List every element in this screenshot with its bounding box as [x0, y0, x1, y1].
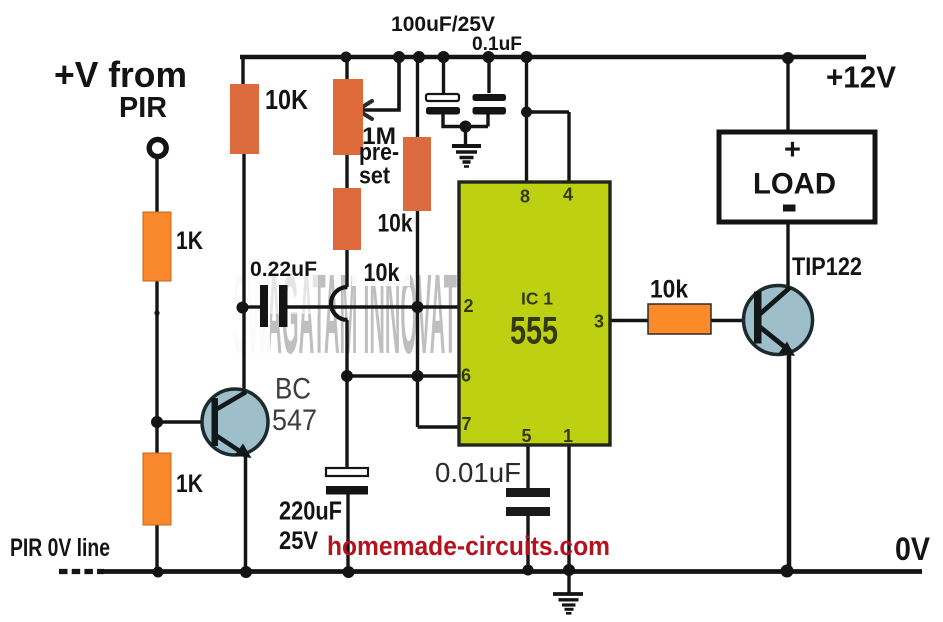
wire BC547 base — [157, 420, 214, 424]
wire 0V rail — [104, 569, 922, 574]
wire LOAD to TIP122 collector — [786, 223, 789, 288]
svg-text:10k: 10k — [378, 210, 413, 238]
wire 100uF bottom lead — [443, 114, 488, 127]
watermark SWAGATAM INNOVATIONS — [226, 252, 509, 378]
svg-text:set: set — [359, 163, 390, 190]
wire 220uF to 0V rail — [346, 494, 349, 572]
resistor 10k (pin2 pullup) — [403, 137, 431, 211]
junction rail / LOAD — [782, 52, 794, 64]
svg-text:0.01uF: 0.01uF — [435, 457, 521, 488]
wire hop over pin2 line — [331, 287, 348, 320]
svg-text:PIR 0V line: PIR 0V line — [10, 534, 110, 562]
wire 1K to lower 1K — [155, 281, 158, 453]
wire 10k to pin7 — [416, 211, 419, 427]
svg-text:5: 5 — [521, 426, 531, 446]
wire rail to 10k (pin2 pullup) — [416, 57, 419, 137]
wire pin2 line left — [244, 305, 260, 308]
ground symbol top (decoupling caps) — [452, 146, 481, 167]
terminal +V from PIR — [149, 140, 166, 157]
junction rail / pin8 — [521, 51, 533, 63]
label 1M pre-set — [359, 123, 399, 190]
junction 0V / BC547 emitter — [240, 566, 252, 578]
svg-text:0.22uF: 0.22uF — [250, 257, 317, 281]
svg-text:3: 3 — [594, 312, 604, 332]
capacitor 0.1uF plates — [473, 94, 507, 115]
svg-text:0.1uF: 0.1uF — [472, 34, 522, 55]
wire top +12V rail — [240, 55, 866, 60]
junction rail / 100uF — [438, 51, 450, 63]
resistor 1K upper — [143, 212, 171, 281]
svg-text:25V: 25V — [279, 527, 318, 555]
wire pin6 junction to 220uF — [345, 376, 348, 468]
wire 0.1uF top lead — [487, 57, 490, 93]
junction collector / 0.22uF — [237, 302, 249, 314]
wire 10K top lead — [241, 55, 244, 84]
svg-text:BC: BC — [275, 373, 311, 406]
svg-text:547: 547 — [272, 404, 317, 437]
svg-text:10K: 10K — [265, 84, 308, 115]
wire PIR 0V dashed lead — [59, 569, 104, 574]
transistor Q2 TIP122 — [744, 286, 813, 357]
wire rail to pin8 — [525, 57, 528, 182]
capacitor 100uF/25V plates — [426, 94, 460, 115]
svg-text:PIR: PIR — [119, 92, 167, 124]
capacitor 0.01uF plates — [506, 488, 550, 516]
svg-text:0V: 0V — [895, 531, 931, 567]
label LOAD minus — [783, 205, 796, 212]
junction rail / 1M preset — [341, 52, 352, 63]
resistor 1K lower — [143, 453, 171, 525]
junction caps to ground — [460, 121, 472, 133]
svg-text:+V from: +V from — [54, 54, 187, 95]
resistor 10k (base, horizontal) — [648, 304, 711, 334]
wire hop to pin6 junction — [345, 320, 348, 376]
wire pin1 ground stub — [567, 572, 570, 594]
junction pin6 line / pin7 branch — [412, 370, 424, 382]
svg-text:555: 555 — [510, 310, 558, 353]
wire pin1 to 0V rail — [567, 445, 570, 572]
wire pin2 line — [287, 305, 459, 308]
svg-text:1K: 1K — [176, 227, 203, 255]
wire rail to 1M preset — [345, 57, 348, 79]
wire tee to pin4 — [527, 112, 570, 182]
wire preset wiper to rail — [360, 58, 399, 110]
LOAD box — [719, 132, 875, 222]
svg-text:TIP122: TIP122 — [792, 253, 862, 281]
wire +12V rail to LOAD — [786, 57, 789, 133]
wire 1M preset to 10k resistor — [345, 155, 348, 188]
svg-text:8: 8 — [520, 187, 530, 207]
svg-text:homemade-circuits.com: homemade-circuits.com — [327, 531, 610, 561]
potentiometer 1M preset body — [333, 79, 363, 155]
junction pin2 line / pullup — [412, 301, 424, 313]
wire TIP122 emitter to 0V rail — [787, 354, 792, 572]
wire 10k down to hop — [345, 250, 348, 287]
wire lower 1K to 0V rail — [155, 525, 158, 572]
svg-text:+: + — [784, 134, 801, 166]
IC U1 555 body — [459, 182, 610, 445]
junction rail / 0.1uF — [483, 51, 495, 63]
junction rail / preset wiper — [393, 51, 405, 63]
svg-text:7: 7 — [461, 414, 471, 434]
svg-text:10k: 10k — [650, 276, 688, 304]
junction 0V / 0.01uF — [523, 565, 534, 576]
svg-text:6: 6 — [461, 366, 471, 386]
capacitor 0.22uF plates — [260, 285, 288, 327]
svg-text:10k: 10k — [364, 259, 400, 287]
wire pin3 to 10k — [610, 319, 648, 323]
wire 0.01uF to 0V rail — [526, 516, 529, 570]
svg-text:1: 1 — [563, 426, 573, 446]
junction 0V / 1K — [153, 567, 164, 578]
junction 0V / TIP122 emitter — [781, 565, 794, 578]
resistor 10K — [230, 84, 259, 154]
junction pin8/pin4 tee — [521, 107, 532, 118]
wire 100uF top lead — [442, 57, 445, 94]
svg-text:1K: 1K — [176, 470, 203, 498]
wire PIR terminal to 1K — [155, 159, 158, 212]
svg-text:LOAD: LOAD — [753, 168, 836, 201]
label +V from PIR — [54, 54, 187, 124]
capacitor 220uF plates — [326, 468, 368, 495]
svg-text:100uF/25V: 100uF/25V — [391, 12, 496, 36]
wire stub to ground — [464, 127, 467, 146]
junction rail / 10k pullup — [413, 51, 425, 63]
preset wiper arrowhead — [358, 101, 373, 119]
svg-text:+12V: +12V — [826, 60, 896, 95]
wire 10K bottom to BC547 collector — [242, 154, 245, 393]
wire pin5 to 0.01uF — [526, 445, 529, 488]
wire 10k to TIP122 base — [711, 319, 745, 323]
transistor Q1 BC547 — [202, 389, 268, 458]
svg-text:2: 2 — [463, 296, 473, 316]
junction base wire — [151, 416, 163, 428]
ground symbol bottom (pin 1) — [553, 594, 583, 613]
junction pin6 line / 220uF — [341, 370, 353, 382]
svg-text:220uF: 220uF — [279, 496, 342, 526]
resistor 10k (timing) — [333, 188, 361, 250]
wire pin7 — [418, 425, 460, 428]
junction 0V / 220uF — [343, 566, 355, 578]
wire BC547 emitter to 0V rail — [244, 453, 248, 572]
label BC 547 — [272, 373, 317, 438]
node speck on left wire — [154, 310, 159, 315]
wire pin6 line — [347, 374, 459, 377]
svg-text:IC 1: IC 1 — [521, 289, 553, 309]
junction 0V / pin1 ground — [563, 564, 575, 576]
svg-text:4: 4 — [563, 185, 573, 205]
